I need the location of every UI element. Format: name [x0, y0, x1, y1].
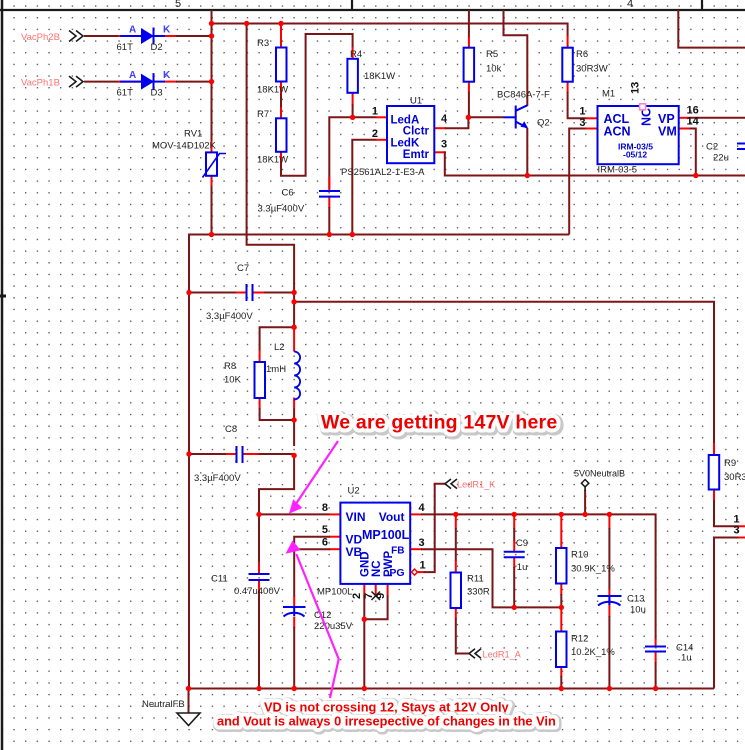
wire bottom bus	[189, 688, 714, 690]
wire R9 to right edge pin1	[714, 500, 739, 526]
wire C12 bottom stub red	[293, 617, 295, 629]
svg-text:330R: 330R	[467, 587, 490, 598]
wire M1 VP stub red	[679, 117, 691, 119]
svg-text:22u: 22u	[713, 153, 729, 164]
svg-text:61T: 61T	[117, 88, 134, 99]
wire C14 to bottom bus	[655, 662, 657, 689]
svg-text:D2: D2	[151, 42, 163, 53]
svg-text:220u35V: 220u35V	[314, 621, 353, 632]
op-amp U1 optocoupler box	[341, 96, 448, 179]
svg-text:18K1W: 18K1W	[257, 155, 288, 166]
wire VacPh2B to D2	[84, 35, 120, 37]
wire R7 top stub red	[280, 107, 282, 119]
wire C13 to bottom bus	[608, 616, 610, 689]
resistor R12	[556, 632, 615, 668]
wire R12 bottom stub red	[560, 666, 562, 677]
wire VIN horizontal	[259, 513, 330, 515]
wire U2 NC stub red	[375, 584, 377, 595]
wire U1 pin4 to base node	[445, 117, 468, 128]
wire R10 bottom stub red	[560, 584, 562, 596]
wire D3 to node	[176, 81, 213, 83]
wire U2 FB stub red	[410, 548, 422, 550]
svg-text:C8: C8	[225, 424, 237, 435]
resistor R11	[451, 573, 490, 609]
wire C9 to FB line	[513, 567, 515, 607]
svg-text:3.3µF400V: 3.3µF400V	[206, 311, 253, 322]
svg-text:C2: C2	[706, 142, 718, 153]
wire L2 bottom to rail	[293, 409, 295, 422]
svg-text:ACN: ACN	[604, 125, 631, 139]
wire ACN vertical to bus2	[569, 129, 586, 235]
svg-text:13: 13	[630, 82, 642, 94]
wire C9 top red	[513, 514, 515, 529]
svg-text:30R3W: 30R3W	[576, 64, 608, 75]
svg-text:K: K	[163, 70, 171, 81]
wire R3-R7 link	[280, 92, 282, 108]
wire D2 to node	[176, 35, 213, 37]
wire U1 pin1 stub red	[376, 116, 387, 118]
svg-text:10k: 10k	[486, 64, 502, 75]
wire R12 to bottom bus	[560, 676, 562, 689]
svg-text:LedK: LedK	[391, 138, 420, 150]
svg-text:14: 14	[687, 116, 700, 128]
wire bus1 horizontal	[212, 24, 568, 37]
svg-text:3: 3	[441, 139, 447, 151]
wire FB net	[421, 549, 561, 607]
svg-text:R6: R6	[576, 49, 588, 60]
wire VacPh1B to D3	[84, 81, 120, 83]
svg-text:10K: 10K	[224, 375, 242, 386]
svg-text:LedR1_K: LedR1_K	[457, 480, 496, 490]
wire base node to Q2	[468, 116, 503, 118]
svg-text:RV1: RV1	[184, 129, 202, 140]
wire C8 left stub red	[225, 453, 237, 455]
svg-text:1u: 1u	[517, 562, 528, 573]
svg-text:0.47u400V: 0.47u400V	[234, 586, 281, 597]
wire L2 R8 bottom link	[260, 408, 295, 420]
wire R6 top stub red	[567, 36, 569, 49]
svg-text:PS2561AL2-1-E3-A: PS2561AL2-1-E3-A	[341, 167, 425, 178]
svg-text:Clctr: Clctr	[403, 126, 430, 138]
transistor Q2	[497, 90, 550, 129]
svg-text:R10: R10	[571, 550, 588, 561]
svg-text:D3: D3	[151, 88, 163, 99]
wire R5 to base node	[468, 92, 470, 117]
port LedR1_A	[469, 649, 522, 660]
svg-text:1: 1	[579, 106, 585, 118]
wire R12 top stub red	[560, 607, 562, 631]
wire right rail upper	[293, 283, 295, 328]
wire U1 pin1 horizontal	[329, 117, 376, 189]
svg-text:U1: U1	[410, 96, 422, 107]
wire C11 bottom stub red	[258, 580, 260, 592]
svg-text:18K1W: 18K1W	[257, 85, 288, 96]
wire R11 top stub red	[455, 560, 457, 573]
wire PWP to GND link	[364, 596, 387, 620]
capacitor C7	[206, 263, 253, 322]
wire L2 R8 top link	[260, 327, 295, 351]
svg-text:C13: C13	[627, 594, 644, 605]
svg-text:-05/12: -05/12	[623, 150, 647, 160]
wire C6 top stub red	[328, 177, 330, 192]
wire C11 top stub red	[258, 562, 260, 575]
svg-text:Q2: Q2	[537, 118, 550, 129]
svg-text:R9: R9	[724, 458, 736, 469]
wire VM down to emitter bus	[690, 129, 696, 176]
annotation arrow to VIN wire	[289, 441, 338, 514]
wire pin3 edge stub red	[738, 537, 745, 539]
svg-text:MOV-14D102K: MOV-14D102K	[152, 141, 217, 152]
wire C14 bottom stub red	[655, 651, 657, 663]
svg-text:R8: R8	[224, 361, 236, 372]
svg-text:4: 4	[441, 113, 448, 125]
svg-text:M1: M1	[602, 89, 615, 100]
svg-text:5: 5	[175, 0, 181, 10]
wire U2 VB stub red	[329, 548, 341, 550]
svg-text:3: 3	[734, 525, 740, 537]
capacitor C13 polarized	[598, 594, 646, 616]
resistor R9	[709, 455, 745, 490]
annotation text 147V	[321, 412, 559, 436]
wire RV1 bottom stub red	[211, 175, 213, 187]
wire C13 upper	[608, 528, 610, 590]
resistor R10	[556, 548, 615, 584]
wire U2 VIN stub red	[329, 513, 341, 515]
wire C12 top stub red	[293, 596, 295, 608]
wire R3 bottom stub red	[280, 82, 282, 94]
ground NeutralFB	[142, 699, 200, 726]
port VacPh2B	[21, 31, 83, 44]
svg-text:3.3µF400V: 3.3µF400V	[258, 204, 305, 215]
svg-text:10u: 10u	[630, 605, 646, 616]
wire U2 PG stub red	[417, 571, 425, 573]
svg-text:4: 4	[627, 0, 633, 10]
wire C6 to bus2	[328, 207, 330, 235]
capacitor C2	[706, 142, 745, 164]
svg-text:8: 8	[322, 502, 328, 514]
svg-text:18K1W: 18K1W	[364, 71, 395, 82]
module M1 IRM-03/5 box	[579, 82, 699, 176]
wire C11 to bottom bus	[258, 591, 260, 689]
wire R11 column	[455, 528, 457, 561]
svg-text:and Vout is always 0 irresepec: and Vout is always 0 irresepective of ch…	[217, 714, 556, 729]
wire right rail jog to VIN	[259, 454, 294, 515]
svg-text:R5: R5	[486, 49, 498, 60]
wire R3 top stub red	[280, 24, 282, 48]
svg-text:Emtr: Emtr	[403, 149, 430, 161]
wire U2 VD stub red	[329, 536, 341, 538]
wire M1 VM stub red	[679, 128, 691, 130]
svg-text:R12: R12	[571, 634, 588, 645]
port LedR1_K	[445, 479, 496, 490]
wire RV1 to bus2	[211, 186, 213, 235]
wire C6 bottom stub red	[328, 196, 330, 209]
svg-text:IRM-03-5: IRM-03-5	[598, 165, 638, 176]
resistor R5	[464, 48, 502, 82]
wire top-right corner feed	[678, 10, 745, 48]
annotation arrow to VD wire	[286, 541, 339, 699]
wire U1 pin2	[352, 140, 376, 235]
wire U1 pin4 stub red	[434, 127, 446, 129]
resistor R7	[257, 109, 288, 166]
wire VP to right edge	[690, 117, 745, 119]
annotation text VD line1	[264, 700, 511, 716]
svg-text:R7: R7	[257, 109, 269, 120]
wire D3 cathode red	[164, 81, 177, 83]
wire R6 to ACL	[568, 92, 587, 118]
svg-text:30R3W: 30R3W	[724, 472, 745, 483]
svg-text:5: 5	[322, 524, 328, 536]
wire GND down	[363, 596, 365, 621]
wire GND to bottom bus	[363, 619, 365, 688]
svg-text:MP100L: MP100L	[362, 528, 410, 542]
capacitor C14	[645, 643, 693, 664]
wire M1 ACL stub red	[586, 117, 598, 119]
wire R11 top red	[455, 514, 457, 529]
wire R5 top stub red	[468, 37, 470, 49]
wire C9 column upper	[513, 528, 515, 541]
svg-text:VacPh1B: VacPh1B	[21, 78, 60, 89]
wire VB to C12 riser	[294, 548, 330, 550]
wire C7 left stub red	[235, 292, 247, 294]
wire R5 bottom stub red	[468, 82, 470, 94]
wire R8 bottom stub red	[259, 397, 261, 409]
svg-text:3: 3	[579, 117, 585, 129]
svg-text:PWP: PWP	[383, 550, 395, 577]
svg-text:5V0NeutralB: 5V0NeutralB	[574, 469, 625, 479]
sheet border top	[0, 0, 745, 10]
wire L2 top stub red	[293, 327, 295, 351]
svg-text:30.9K_1%: 30.9K_1%	[571, 564, 615, 575]
wire PG to LedR1_K port	[424, 484, 447, 572]
wire C8 right stub red	[244, 453, 260, 455]
capacitor C9	[504, 538, 528, 573]
wire U1 pin3 stub red	[434, 151, 446, 153]
capacitor C11	[211, 574, 281, 598]
wire C13 column red	[608, 514, 610, 529]
wire M1 ACN stub red	[586, 128, 598, 130]
wire RV1 top stub red	[211, 141, 213, 153]
wire R7 loop to R4	[281, 34, 353, 176]
wire R10 to FB line	[560, 594, 562, 607]
wire NeutralFB stem	[188, 689, 190, 714]
wire R4 top stub red	[352, 47, 354, 59]
svg-text:1mH: 1mH	[266, 364, 286, 375]
svg-text:C6: C6	[282, 188, 294, 199]
svg-text:3.3µF400V: 3.3µF400V	[194, 473, 241, 484]
wire right edge pin3 riser	[714, 538, 739, 689]
wire R9 bottom stub red	[713, 490, 715, 501]
svg-text:6: 6	[322, 537, 328, 549]
svg-text:R11: R11	[467, 574, 484, 585]
svg-text:2: 2	[351, 593, 363, 599]
wire R4 to pin1 node	[352, 104, 354, 117]
svg-text:VacPh2B: VacPh2B	[21, 32, 60, 43]
wire pin1 edge stub red	[738, 525, 745, 527]
wire R8 top stub red	[259, 350, 261, 362]
svg-text:NC: NC	[640, 108, 654, 126]
resistor R6	[562, 48, 607, 82]
wire L2 bottom stub red	[293, 398, 295, 410]
svg-text:A: A	[129, 25, 136, 36]
wire R6 bottom stub red	[567, 82, 569, 94]
wire R5 feed vertical	[468, 10, 470, 38]
svg-text:10.2K_1%: 10.2K_1%	[571, 647, 615, 658]
wire emitter bus	[445, 152, 745, 175]
svg-text:2: 2	[372, 128, 378, 140]
port VacPh1B	[21, 76, 83, 89]
wire 5V0NeutralB stem	[584, 490, 586, 514]
svg-text:MP100L: MP100L	[317, 587, 352, 598]
wire branch to C7 rail	[247, 24, 295, 285]
wire C7 left to rail	[189, 292, 236, 294]
wire C8 right to rail	[259, 454, 295, 456]
wire C7 right to rail	[264, 292, 294, 294]
wire C9 top stub red	[513, 540, 515, 552]
wire R4 bottom stub red	[352, 93, 354, 105]
wire tap to R9 line	[294, 302, 714, 444]
svg-text:3: 3	[419, 537, 425, 549]
svg-text:We are getting 147V here: We are getting 147V here	[321, 412, 557, 434]
wire R10 top stub red	[560, 514, 562, 548]
svg-text:C11: C11	[211, 574, 228, 585]
resistor R4	[347, 49, 395, 93]
svg-text:BC846A-7-F: BC846A-7-F	[497, 90, 550, 101]
wire U2 Vout stub red	[410, 513, 422, 515]
svg-text:Vout: Vout	[379, 510, 405, 524]
resistor R8	[224, 361, 265, 398]
wire Vout bus	[421, 514, 656, 640]
wire VD to C12 riser	[294, 537, 330, 597]
wire C14 top stub red	[655, 639, 657, 647]
wire D2 anode red	[118, 35, 141, 37]
svg-text:A: A	[129, 70, 136, 81]
svg-text:C7: C7	[237, 263, 249, 274]
resistor R3	[257, 38, 288, 96]
svg-text:VIN: VIN	[346, 510, 366, 524]
wire D3 anode red	[118, 81, 141, 83]
capacitor C6	[258, 188, 341, 215]
wire R11 to LedR1_A port	[456, 618, 470, 654]
wire right rail mid	[293, 420, 295, 446]
svg-text:C9: C9	[516, 538, 528, 549]
svg-text:61T: 61T	[117, 42, 134, 53]
svg-text:LedR1_A: LedR1_A	[483, 650, 522, 660]
svg-text:R4: R4	[350, 49, 362, 60]
wire U2 PWP stub red	[387, 584, 389, 597]
power port 5V0NeutralB	[574, 469, 625, 492]
svg-text:VM: VM	[658, 125, 677, 139]
svg-text:VD is not crossing 12, Stays a: VD is not crossing 12, Stays at 12V Only	[264, 700, 510, 715]
diode D3	[117, 70, 172, 99]
wire C12 to bottom bus	[293, 627, 295, 689]
svg-text:GND: GND	[360, 551, 372, 577]
op-amp U2 regulator box	[317, 486, 426, 601]
wire U2 GND stub red	[363, 584, 365, 597]
svg-text:1: 1	[420, 560, 426, 572]
wire C11 column upper	[258, 514, 260, 563]
svg-text:R3: R3	[257, 38, 269, 49]
svg-text:4: 4	[419, 502, 426, 514]
wire C8 left to rail	[189, 453, 226, 455]
wire bus2 horizontal	[189, 235, 569, 689]
diode D2	[117, 25, 172, 54]
svg-text:1: 1	[372, 106, 378, 118]
wire D2 cathode red	[164, 35, 177, 37]
svg-text:1u: 1u	[681, 653, 692, 664]
sheet border left	[0, 0, 6, 750]
wire AC rail vertical to RV1	[211, 10, 213, 141]
wire C13 through red	[608, 589, 610, 617]
wire R9 top stub red	[713, 443, 715, 455]
svg-text:NC: NC	[371, 560, 383, 577]
wire C9 bottom stub red	[513, 557, 515, 569]
wire Q2 emitter down	[526, 128, 528, 176]
inductor L2	[266, 342, 300, 400]
svg-text:K: K	[163, 25, 171, 36]
svg-text:U2: U2	[348, 486, 360, 497]
wire Q2 collector feed	[504, 10, 528, 106]
annotation text VD line2	[217, 714, 557, 730]
svg-text:NeutralFB: NeutralFB	[142, 699, 185, 710]
capacitor C8	[194, 424, 243, 484]
wire U1 pin2 stub red	[376, 139, 387, 141]
svg-text:L2: L2	[274, 342, 285, 353]
varistor RV1	[152, 129, 226, 178]
wire R11 bottom stub red	[455, 608, 457, 619]
capacitor C12 polarized	[283, 607, 353, 632]
wire R7 bottom stub red	[280, 151, 282, 163]
wire C7 right stub red	[253, 292, 265, 294]
